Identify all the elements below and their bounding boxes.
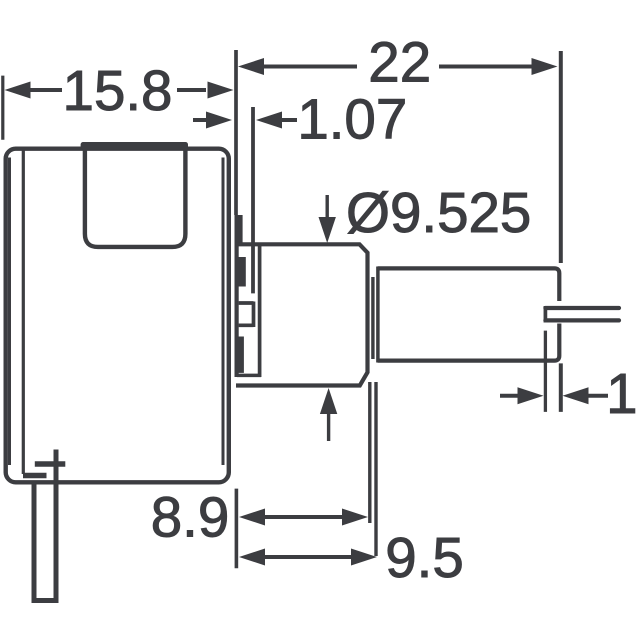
extension line at body right face — [234, 50, 238, 215]
bushing flange line — [258, 244, 262, 377]
svg-text:22: 22 — [368, 31, 431, 94]
body right inner seam line — [222, 158, 225, 466]
dimension 15.8 extension line left — [1, 76, 4, 140]
dimension 8.9 extension line right — [368, 382, 371, 523]
washer step line — [371, 277, 374, 359]
plate lower block — [235, 337, 244, 373]
polarity cross mark — [35, 461, 66, 467]
terminal pin — [32, 450, 59, 601]
seam foot tick — [23, 473, 47, 479]
body left inner seam line — [8, 158, 11, 466]
bushing outline — [236, 244, 368, 385]
svg-text:9.5: 9.5 — [385, 526, 464, 589]
dimension diameter 9.525 — [319, 181, 532, 441]
mounting plate left edge — [235, 215, 239, 377]
flange bottom connector — [237, 374, 261, 378]
svg-text:8.9: 8.9 — [151, 485, 230, 548]
top tab bar — [81, 142, 188, 149]
dimension 8.9 extension line left — [235, 489, 239, 569]
body left second seam line — [22, 150, 25, 474]
dimension 9.5 extension line right — [374, 382, 377, 556]
anti-rotation tab — [239, 302, 254, 328]
dimension 22 — [238, 31, 558, 94]
top window outline — [85, 149, 185, 247]
dimension 8.9 — [151, 485, 368, 548]
shaft slot — [545, 306, 619, 323]
dimension 9.5 — [239, 526, 464, 589]
svg-text:1.07: 1.07 — [297, 88, 407, 151]
svg-text:Ø9.525: Ø9.525 — [346, 181, 531, 244]
dimension 15.8 — [5, 59, 234, 122]
plate upper block — [235, 215, 243, 244]
plate mid block — [235, 257, 246, 287]
dimension 1.07 — [193, 88, 407, 151]
dimension 22 extension line right — [559, 51, 563, 412]
svg-text:1: 1 — [606, 362, 637, 425]
body outline — [6, 149, 229, 483]
dimension 1.07 extension line right — [251, 107, 255, 293]
shaft outline — [378, 267, 560, 363]
dimension 1 extension line left — [544, 331, 547, 412]
svg-text:15.8: 15.8 — [63, 59, 173, 122]
dimension 1 — [500, 362, 638, 425]
